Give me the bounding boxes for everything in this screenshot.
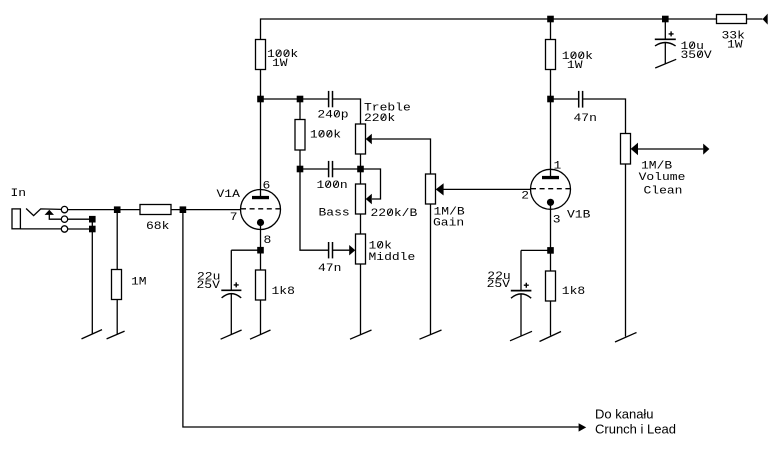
svg-text:220k/B: 220k/B: [371, 207, 418, 220]
svg-text:100n: 100n: [317, 179, 348, 192]
svg-text:350V: 350V: [681, 48, 713, 61]
svg-text:7: 7: [230, 210, 238, 223]
svg-text:100k: 100k: [310, 128, 341, 141]
svg-text:Do kanału: Do kanału: [595, 407, 654, 422]
svg-text:Clean: Clean: [644, 184, 683, 197]
svg-text:V1B: V1B: [567, 208, 590, 221]
svg-text:1k8: 1k8: [272, 284, 295, 297]
svg-text:Volume: Volume: [639, 171, 686, 184]
svg-text:In: In: [11, 187, 27, 200]
svg-text:Middle: Middle: [369, 251, 416, 264]
svg-text:47n: 47n: [318, 262, 341, 275]
svg-text:68k: 68k: [146, 219, 169, 232]
svg-text:220k: 220k: [364, 111, 395, 124]
svg-text:1k8: 1k8: [562, 285, 585, 298]
svg-text:1W: 1W: [567, 59, 583, 72]
svg-text:Crunch i Lead: Crunch i Lead: [595, 421, 676, 436]
svg-text:1W: 1W: [272, 57, 288, 70]
svg-text:25V: 25V: [197, 279, 221, 292]
svg-text:1M: 1M: [131, 275, 147, 288]
svg-text:Bass: Bass: [319, 206, 350, 219]
svg-text:V1A: V1A: [217, 188, 241, 201]
svg-text:3: 3: [553, 213, 561, 226]
svg-text:2: 2: [521, 189, 529, 202]
svg-text:1W: 1W: [727, 38, 743, 51]
svg-text:25V: 25V: [487, 278, 511, 291]
svg-text:6: 6: [263, 179, 271, 192]
svg-text:240p: 240p: [317, 108, 348, 121]
svg-text:Gain: Gain: [433, 216, 464, 229]
svg-text:8: 8: [264, 233, 272, 246]
svg-text:47n: 47n: [574, 112, 597, 125]
svg-text:1: 1: [554, 159, 562, 172]
